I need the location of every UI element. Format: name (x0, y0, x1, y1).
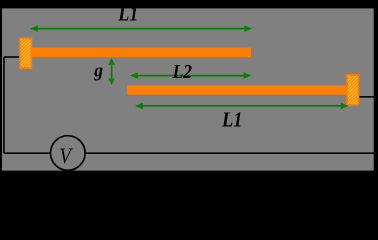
svg-text:L1: L1 (221, 107, 242, 131)
svg-text:L2: L2 (172, 61, 192, 83)
voltage source V circle (51, 136, 86, 171)
svg-text:V: V (59, 143, 72, 168)
black frame background (0, 0, 378, 174)
beam 1 (top cantilever) (31, 48, 251, 58)
dimension arrow L1 (bottom, double-headed) (135, 103, 349, 109)
anchor (top left, hatched) (20, 38, 31, 68)
wire bottom horizontal (4, 152, 374, 154)
anchor (bottom right, hatched) (347, 75, 358, 105)
svg-text:g: g (93, 61, 103, 81)
wire from right anchor to right edge (359, 96, 375, 98)
beam 2 (bottom cantilever) (127, 85, 347, 94)
gray panel (2, 8, 374, 170)
svg-text:L1: L1 (117, 1, 138, 25)
wire left vertical (3, 57, 5, 153)
dimension arrow L1 (top, double-headed) (30, 25, 252, 31)
wire from left edge to top anchor (4, 56, 20, 58)
dimension arrow g (vertical, double-headed) (108, 58, 114, 85)
dimension arrow L2 (double-headed) (130, 72, 252, 78)
